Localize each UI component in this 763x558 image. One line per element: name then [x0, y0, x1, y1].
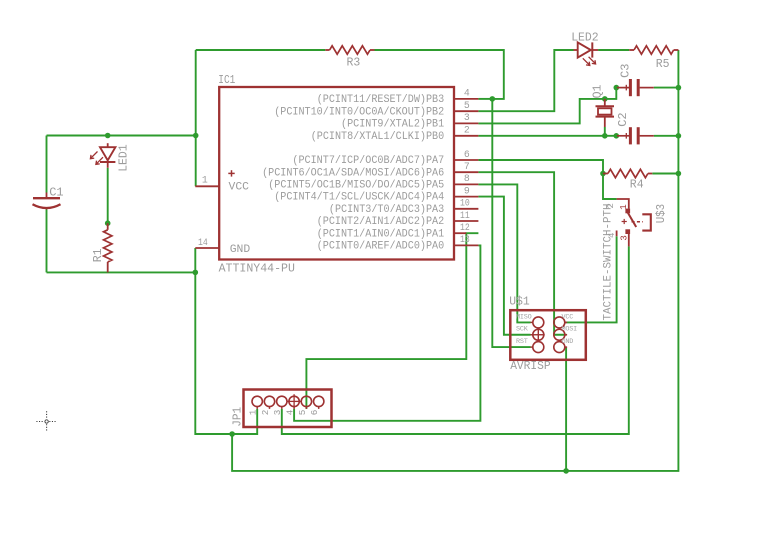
capacitor C2 — [617, 127, 654, 144]
label JP1 — [232, 407, 245, 427]
AVRISP left pin RST circle — [531, 342, 544, 353]
IC U1 ATTINY44 box — [219, 87, 454, 260]
wire R3 right to RESET corner — [375, 50, 504, 99]
switch U$3 actuator bracket — [642, 214, 651, 230]
label U$1 — [509, 295, 530, 308]
connector U$1 AVRISP box — [510, 310, 586, 360]
svg-text:Q1: Q1 — [590, 85, 604, 99]
svg-text:14: 14 — [198, 237, 208, 248]
node GND net junction bottom — [229, 431, 235, 437]
wire pin6 PA7 net to R4 — [478, 160, 603, 174]
pin number 2 — [464, 125, 470, 136]
svg-text:GND: GND — [230, 244, 251, 256]
pin label (PCINT2/AIN1/ADC2)PA2 — [317, 216, 445, 228]
label C2 — [616, 112, 630, 126]
wire C2 right to rail — [654, 135, 679, 137]
svg-text:2: 2 — [260, 410, 271, 416]
node right rail junction R4 — [676, 171, 682, 177]
pin 10 stub — [454, 208, 478, 210]
JP1 pin number 1 — [248, 409, 259, 415]
svg-text:(PCINT1/AIN0/ADC1)PA1: (PCINT1/AIN0/ADC1)PA1 — [317, 228, 445, 240]
svg-text:3: 3 — [272, 410, 283, 416]
AVRISP right pin GND circle — [554, 342, 567, 353]
pin number 13 — [460, 234, 470, 245]
pin number 14 — [198, 237, 208, 248]
wire pin9 PA4 SCK net — [478, 197, 530, 335]
node right rail junction C2 — [676, 133, 682, 139]
switch U$3 pin3 lead — [628, 234, 630, 247]
node GND AVRISP junction — [563, 468, 569, 474]
svg-text:(PCINT7/ICP/OC0B/ADC7)PA7: (PCINT7/ICP/OC0B/ADC7)PA7 — [292, 155, 444, 167]
wire C1 upper segment — [46, 136, 48, 193]
switch pin number 2 — [606, 203, 616, 208]
pin 13 stub — [454, 244, 478, 246]
node C3 left junction — [614, 85, 620, 91]
AVRISP left pin SCK circle — [531, 329, 544, 340]
pin 8 stub — [454, 183, 478, 185]
svg-text:GND: GND — [562, 338, 574, 346]
JP1 pin number 5 — [297, 410, 308, 416]
svg-text:R4: R4 — [630, 177, 644, 191]
pin number 5 — [464, 100, 470, 111]
wire pin4 net stub to junction — [478, 98, 492, 100]
svg-text:4: 4 — [285, 409, 296, 415]
svg-text:IC1: IC1 — [218, 73, 235, 87]
JP1 pin number 4 — [285, 409, 296, 415]
pin number 3 — [464, 112, 470, 123]
pin label GND — [230, 244, 251, 256]
pin 9 stub — [454, 196, 478, 198]
svg-text:LED1: LED1 — [117, 144, 131, 172]
wire AVRISP GND pin down — [565, 347, 567, 471]
pin label (PCINT5/OC1B/MISO/DO/ADC5)PA5 — [268, 180, 444, 192]
wire pin2 PB0 XTAL1 net — [478, 135, 617, 137]
svg-text:4: 4 — [464, 88, 470, 99]
pin 5 stub — [454, 110, 478, 112]
svg-text:ATTINY44-PU: ATTINY44-PU — [219, 262, 295, 276]
svg-text:(PCINT10/INT0/OC0A/CKOUT)PB2: (PCINT10/INT0/OC0A/CKOUT)PB2 — [274, 106, 444, 118]
wire switch pin4 to AVRISP VCC — [565, 236, 617, 322]
label C3 — [618, 63, 632, 77]
capacitor C1 — [33, 193, 61, 210]
switch U$3 lever — [628, 213, 637, 228]
pin label (PCINT0/AREF/ADC0)PA0 — [317, 241, 445, 253]
origin crosshair mark — [36, 411, 56, 431]
svg-text:RST: RST — [516, 338, 528, 346]
wire LED2 cathode to R5 — [598, 49, 629, 51]
JP1 pin 4 circle — [289, 396, 299, 409]
label AVRISP — [510, 360, 551, 373]
AVRISP left pin MISO circle — [531, 317, 544, 328]
pin 4 stub — [454, 98, 478, 100]
svg-text:U$1: U$1 — [509, 295, 530, 308]
pin 7 stub — [454, 171, 478, 173]
pin label (PCINT8/XTAL1/CLKI)PB0 — [311, 131, 445, 143]
svg-text:3: 3 — [464, 112, 470, 123]
node right rail junction C3 — [676, 85, 682, 91]
VCC plus mark — [228, 170, 234, 176]
switch U$3 pin4 lead — [616, 231, 618, 237]
wire VCC top rail from left rail to R3 — [196, 49, 326, 51]
svg-text:C2: C2 — [616, 112, 630, 126]
wire pin13 PA0 net to JP1 pin4 — [294, 245, 480, 420]
switch U$3 pivot cross — [622, 219, 627, 224]
AVRISP origin cross on SCK — [532, 328, 545, 341]
svg-text:12: 12 — [460, 222, 470, 233]
JP1 pin 1 circle — [252, 396, 262, 409]
JP1 pin 3 circle — [277, 396, 287, 409]
svg-text:5: 5 — [464, 100, 470, 111]
svg-text:R1: R1 — [91, 248, 105, 262]
svg-text:(PCINT8/XTAL1/CLKI)PB0: (PCINT8/XTAL1/CLKI)PB0 — [311, 131, 445, 143]
pin label (PCINT10/INT0/OC0A/CKOUT)PB2 — [274, 106, 444, 118]
pin number 10 — [460, 198, 470, 209]
wire pin12 PA1 net to JP1 pin5 — [306, 233, 478, 409]
capacitor C3 — [617, 79, 654, 96]
svg-text:MISO: MISO — [516, 313, 532, 321]
svg-text:JP1: JP1 — [232, 407, 245, 427]
wire GND vertical from IC pin14 down — [195, 248, 257, 434]
switch pin number 1 — [619, 204, 629, 209]
pin 3 stub — [454, 122, 478, 124]
AVRISP right pin MOSI circle — [554, 329, 567, 340]
resistor R1 — [104, 223, 112, 272]
JP1 pin number 6 — [309, 410, 320, 416]
wire XTAL2 jog to C3 — [605, 88, 617, 99]
pin label VCC — [229, 181, 250, 193]
svg-text:(PCINT3/T0/ADC3)PA3: (PCINT3/T0/ADC3)PA3 — [329, 204, 444, 216]
resistor R5 — [629, 46, 678, 54]
wire bottom-left to GND rail — [47, 271, 196, 273]
wire R4 right to rail — [652, 173, 678, 175]
label C1 — [49, 186, 63, 200]
pin label (PCINT9/XTAL2)PB1 — [341, 119, 444, 131]
svg-text:MOSI: MOSI — [562, 326, 578, 334]
label R3 — [347, 56, 361, 70]
wire VCC left rail vertical — [195, 50, 197, 186]
connector JP1 box — [244, 390, 332, 428]
AVRISP pin label RST — [516, 338, 528, 346]
svg-text:1: 1 — [619, 204, 629, 209]
label LED1 — [117, 144, 131, 172]
svg-text:(PCINT4/T1/SCL/USCK/ADC4)PA4: (PCINT4/T1/SCL/USCK/ADC4)PA4 — [274, 192, 444, 204]
pin 6 stub — [454, 159, 478, 161]
wire pin7 PA6 MOSI net — [478, 172, 566, 335]
svg-text:6: 6 — [309, 410, 320, 416]
wire RESET vertical down to AVRISP RST — [492, 99, 530, 347]
label R4 — [630, 177, 644, 191]
pin label (PCINT3/T0/ADC3)PA3 — [329, 204, 444, 216]
wire top-left to C1 — [47, 135, 196, 137]
label Q1 — [590, 85, 604, 99]
wire GND bottom loop to right rail — [232, 50, 678, 471]
JP1 pin 5 circle — [301, 396, 311, 409]
svg-text:(PCINT6/OC1A/SDA/MOSI/ADC6)PA6: (PCINT6/OC1A/SDA/MOSI/ADC6)PA6 — [262, 167, 444, 179]
pin label (PCINT1/AIN0/ADC1)PA1 — [317, 228, 445, 240]
pin 1 VCC stub — [195, 185, 219, 187]
svg-text:C1: C1 — [49, 186, 63, 200]
label R1 — [91, 248, 105, 262]
switch U$3 contacts — [625, 209, 630, 234]
svg-text:C3: C3 — [618, 63, 632, 77]
pin number 12 — [460, 222, 470, 233]
wire switch pin3 down to JP1 pin3 — [282, 246, 629, 434]
pin number 8 — [464, 173, 470, 184]
node VCC left rail junction — [193, 133, 199, 139]
svg-text:9: 9 — [464, 185, 470, 196]
label R5 — [656, 57, 670, 71]
pin label (PCINT7/ICP/OC0B/ADC7)PA7 — [292, 155, 444, 167]
pin 2 stub — [454, 135, 478, 137]
svg-text:R3: R3 — [347, 56, 361, 70]
node XTAL1 crystal-bottom junction — [602, 133, 608, 139]
pin 11 stub — [454, 220, 478, 222]
wire PA7 to switch pin1 — [603, 174, 617, 200]
pin number 9 — [464, 185, 470, 196]
pin number 4 — [464, 88, 470, 99]
switch pin number 4 — [607, 233, 617, 238]
svg-text:TACTILE-SWITCH-PTH: TACTILE-SWITCH-PTH — [602, 204, 614, 321]
label U$3 — [655, 204, 668, 224]
pin number 1 — [202, 175, 208, 186]
svg-text:VCC: VCC — [562, 313, 574, 321]
node LED1 top junction — [105, 133, 111, 139]
JP1 pin number 2 — [260, 410, 271, 416]
svg-text:6: 6 — [464, 149, 470, 160]
JP1 pin 6 circle — [314, 396, 324, 409]
node LED1-R1 junction — [105, 220, 111, 226]
switch pin number 3 — [619, 235, 629, 240]
wire LED1 to R1 — [107, 168, 109, 223]
svg-text:11: 11 — [460, 210, 470, 221]
svg-text:(PCINT11/RESET/DW)PB3: (PCINT11/RESET/DW)PB3 — [317, 94, 445, 106]
svg-text:10: 10 — [460, 198, 470, 209]
AVRISP pin label VCC — [562, 313, 574, 321]
label IC1 — [218, 73, 235, 87]
wire C1 lower segment — [46, 210, 48, 273]
JP1 pin number 3 — [272, 410, 283, 416]
pin label (PCINT11/RESET/DW)PB3 — [317, 94, 445, 106]
switch U$3 dashed link — [632, 221, 644, 223]
svg-text:LED2: LED2 — [571, 31, 599, 45]
svg-text:VCC: VCC — [229, 181, 250, 193]
switch U$3 pin1 lead — [617, 199, 629, 209]
svg-text:7: 7 — [464, 161, 470, 172]
wire pin5 PB2 net to LED2 — [478, 50, 573, 111]
wire crystal bottom lead net — [604, 127, 606, 136]
JP1 origin cross — [287, 394, 301, 408]
node XTAL2 crystal-top junction — [602, 96, 608, 102]
AVRISP pin label MOSI — [562, 326, 578, 334]
wire pin8 PA5 MISO net — [478, 184, 530, 322]
svg-text:(PCINT5/OC1B/MISO/DO/ADC5)PA5: (PCINT5/OC1B/MISO/DO/ADC5)PA5 — [268, 180, 444, 192]
svg-text:U$3: U$3 — [655, 204, 668, 224]
pin label (PCINT6/OC1A/SDA/MOSI/ADC6)PA6 — [262, 167, 444, 179]
svg-text:(PCINT2/AIN1/ADC2)PA2: (PCINT2/AIN1/ADC2)PA2 — [317, 216, 445, 228]
svg-text:(PCINT9/XTAL2)PB1: (PCINT9/XTAL2)PB1 — [341, 119, 444, 131]
svg-text:AVRISP: AVRISP — [510, 360, 551, 373]
svg-text:5: 5 — [297, 410, 308, 416]
pin number 6 — [464, 149, 470, 160]
resistor R3 — [325, 46, 374, 54]
label LED2 — [571, 31, 599, 45]
svg-text:13: 13 — [460, 234, 470, 245]
AVRISP pin label MISO — [516, 313, 532, 321]
pin number 11 — [460, 210, 470, 221]
node RESET junction at pin 4 — [490, 96, 496, 102]
wire pin3 PB1 XTAL2 net — [478, 99, 604, 124]
node GND bottom-left junction — [193, 270, 199, 276]
svg-text:(PCINT0/AREF/ADC0)PA0: (PCINT0/AREF/ADC0)PA0 — [317, 241, 445, 253]
AVRISP pin label SCK — [516, 326, 529, 334]
svg-text:2: 2 — [464, 125, 470, 136]
wire C3 right to rail — [654, 87, 679, 89]
pin 12 stub — [454, 232, 466, 234]
JP1 pin 2 circle — [264, 396, 274, 409]
label TACTILE-SWITCH-PTH — [602, 204, 614, 321]
label ATTINY44-PU — [219, 262, 295, 276]
svg-text:8: 8 — [464, 173, 470, 184]
svg-text:R5: R5 — [656, 57, 670, 71]
AVRISP right pin VCC circle — [554, 317, 567, 328]
svg-text:SCK: SCK — [516, 326, 529, 334]
svg-text:3: 3 — [619, 235, 629, 240]
AVRISP pin label GND — [562, 338, 574, 346]
LED LED1 — [90, 143, 115, 168]
node R4 left junction — [600, 171, 606, 177]
pin number 7 — [464, 161, 470, 172]
pin label (PCINT4/T1/SCL/USCK/ADC4)PA4 — [274, 192, 444, 204]
node C2 left junction — [614, 133, 620, 139]
crystal Q1 — [596, 99, 615, 127]
LED LED2 — [574, 42, 599, 65]
svg-text:1: 1 — [248, 409, 259, 415]
resistor R4 — [603, 169, 652, 177]
pin 14 GND stub — [195, 247, 219, 249]
svg-text:1: 1 — [202, 175, 208, 186]
